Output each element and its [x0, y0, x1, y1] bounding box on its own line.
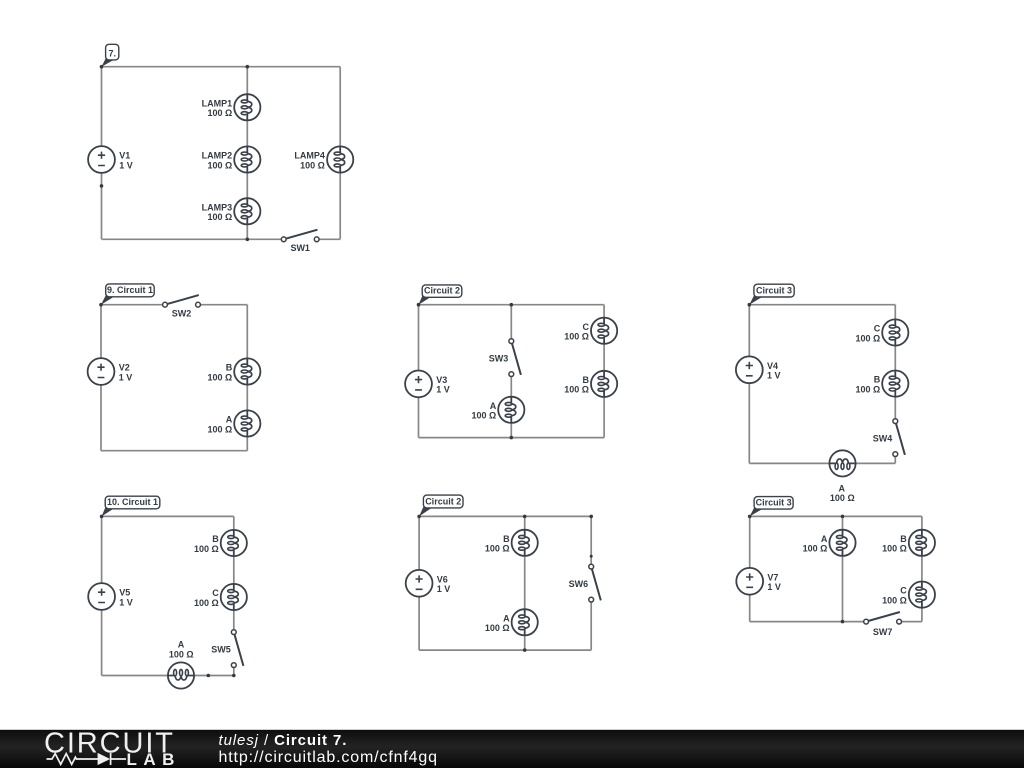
lamp A (10.3): [829, 530, 855, 556]
node (callout tip): [417, 515, 421, 519]
junction bottom of middle branch (9.2): [510, 436, 514, 440]
svg-text:100 Ω: 100 Ω: [855, 333, 880, 343]
junction bottom wire (10.1): [207, 674, 211, 678]
svg-text:V5: V5: [119, 588, 130, 598]
wire top (10.1): [102, 515, 234, 517]
svg-text:Circuit 3: Circuit 3: [756, 498, 792, 508]
callout "Circuit 3" (10.3): [750, 497, 793, 517]
svg-text:B: B: [503, 534, 510, 544]
svg-text:1 V: 1 V: [119, 372, 133, 382]
svg-text:SW2: SW2: [172, 309, 192, 319]
svg-text:A: A: [226, 415, 233, 425]
svg-text:A: A: [178, 640, 185, 650]
voltage source V5: [88, 583, 115, 610]
lamp LAMP3: [234, 198, 260, 224]
svg-text:V4: V4: [767, 361, 778, 371]
svg-text:http://circuitlab.com/cfnf4gq: http://circuitlab.com/cfnf4gq: [219, 749, 438, 766]
svg-text:100 Ω: 100 Ω: [830, 493, 855, 503]
lamp C (10.1): [221, 584, 247, 610]
wire bottom-left (10.3): [750, 621, 866, 623]
wire left (9.3): [748, 305, 750, 464]
lamp B (9.1): [234, 358, 260, 384]
lamp B (9.3): [882, 371, 908, 397]
junction top of middle branch (9.2): [510, 303, 514, 307]
svg-text:B: B: [874, 375, 881, 385]
voltage source V6: [406, 570, 433, 597]
lamp A horizontal (9.3): [829, 450, 855, 476]
wire right lower (9.3): [894, 454, 896, 463]
svg-text:A: A: [839, 484, 846, 494]
svg-text:V1: V1: [119, 151, 130, 161]
wire left (10.1): [101, 516, 103, 675]
switch SW3: [509, 339, 521, 377]
svg-text:C: C: [212, 588, 219, 598]
junction bottom of middle branch (10.2): [523, 648, 527, 652]
svg-text:LAMP4: LAMP4: [294, 151, 325, 161]
lamp C (9.2): [591, 318, 617, 344]
wire top (10.2): [419, 515, 591, 517]
lamp C (9.3): [882, 319, 908, 345]
lamp A (9.2): [498, 397, 524, 423]
lamp B (10.1): [221, 530, 247, 556]
wire right (circuit 7): [339, 67, 341, 240]
wire top (10.3): [750, 515, 922, 517]
wire middle branch (circuit 7): [246, 67, 248, 240]
svg-text:1 V: 1 V: [119, 160, 133, 170]
switch SW5: [231, 630, 243, 668]
svg-text:V6: V6: [437, 574, 448, 584]
junction bottom of lamp branch: [246, 238, 250, 242]
svg-text:100 Ω: 100 Ω: [564, 332, 589, 342]
svg-text:V7: V7: [767, 572, 778, 582]
svg-text:A: A: [490, 401, 497, 411]
callout "9. Circuit 1": [101, 284, 154, 305]
lamp A (10.2): [512, 609, 538, 635]
svg-text:100 Ω: 100 Ω: [855, 384, 880, 394]
svg-text:SW6: SW6: [569, 579, 589, 589]
svg-text:LAMP3: LAMP3: [202, 202, 233, 212]
callout "10. Circuit 1": [102, 496, 160, 516]
wire right lower (10.2): [590, 600, 592, 651]
svg-text:A: A: [821, 534, 828, 544]
wire left (9.1): [100, 305, 102, 451]
voltage source V7: [736, 568, 763, 595]
svg-text:Circuit 3: Circuit 3: [756, 285, 792, 295]
svg-text:9. Circuit 1: 9. Circuit 1: [107, 285, 153, 295]
svg-text:100 Ω: 100 Ω: [485, 544, 510, 554]
wire middle upper (9.2): [510, 305, 512, 341]
svg-text:100 Ω: 100 Ω: [194, 598, 219, 608]
wire middle branch (10.2): [524, 516, 526, 650]
svg-text:10. Circuit 1: 10. Circuit 1: [107, 497, 158, 507]
svg-text:Circuit 2: Circuit 2: [425, 496, 461, 506]
lamp A horizontal (10.1): [168, 662, 194, 688]
wire top (9.3): [749, 304, 895, 306]
svg-text:B: B: [583, 375, 590, 385]
wire left (10.3): [749, 516, 751, 621]
svg-text:100 Ω: 100 Ω: [194, 544, 219, 554]
voltage source V2: [88, 358, 115, 385]
wire top (9.2): [419, 304, 605, 306]
callout "Circuit 2" (10.2): [419, 495, 463, 516]
junction top-right corner (10.2): [589, 515, 593, 519]
switch SW2: [163, 295, 201, 307]
wire bottom-left (circuit 7): [102, 238, 284, 240]
voltage source V3: [405, 371, 432, 398]
callout "7.": [102, 44, 119, 66]
wire bottom-right (10.3): [899, 621, 922, 623]
wire right (9.1): [246, 305, 248, 451]
switch SW4: [893, 419, 905, 457]
svg-text:100 Ω: 100 Ω: [207, 424, 232, 434]
wire middle lower (9.2): [510, 374, 512, 438]
svg-text:C: C: [874, 324, 881, 334]
callout "Circuit 3" (9.3): [749, 284, 794, 305]
wire right upper (10.1): [233, 516, 235, 632]
svg-text:1 V: 1 V: [436, 385, 450, 395]
node (callout tip): [100, 515, 104, 519]
svg-text:C: C: [900, 586, 907, 596]
wire right (9.2): [603, 305, 605, 438]
svg-text:B: B: [226, 363, 233, 373]
svg-text:B: B: [900, 534, 907, 544]
svg-text:SW4: SW4: [873, 434, 893, 444]
svg-text:1 V: 1 V: [119, 597, 133, 607]
wire top (circuit 7): [102, 66, 341, 68]
switch SW7: [864, 612, 902, 624]
svg-text:V3: V3: [436, 375, 447, 385]
switch SW1: [281, 230, 319, 242]
node (callout tip): [748, 303, 752, 307]
wire top-right (9.1): [198, 304, 247, 306]
svg-text:100 Ω: 100 Ω: [564, 385, 589, 395]
lamp C (10.3): [909, 582, 935, 608]
wire bottom (9.1): [101, 450, 247, 452]
junction bottom of middle branch (10.3): [841, 620, 845, 624]
wire bottom-right (circuit 7): [317, 238, 340, 240]
lamp A (9.1): [234, 410, 260, 436]
voltage source V4: [736, 356, 763, 383]
callout "Circuit 2" (9.2): [419, 285, 462, 305]
wire left (circuit 7): [101, 67, 103, 240]
wire right (10.3): [921, 516, 923, 621]
svg-text:SW5: SW5: [211, 645, 231, 655]
svg-text:7.: 7.: [108, 48, 116, 58]
wire bottom (9.2): [419, 437, 605, 439]
junction right wire (10.2): [590, 555, 593, 558]
wire left (9.2): [418, 305, 420, 438]
svg-text:tulesj / Circuit 7.: tulesj / Circuit 7.: [219, 732, 348, 749]
lamp B (10.2): [512, 530, 538, 556]
wire right lower (10.1): [233, 665, 235, 675]
svg-text:SW7: SW7: [873, 627, 893, 637]
wire middle branch (10.3): [842, 516, 844, 621]
junction top of lamp branch: [246, 65, 250, 69]
junction top of middle branch (10.2): [523, 515, 527, 519]
svg-text:100 Ω: 100 Ω: [300, 160, 325, 170]
svg-text:LAMP2: LAMP2: [202, 151, 233, 161]
svg-text:100 Ω: 100 Ω: [207, 372, 232, 382]
svg-text:100 Ω: 100 Ω: [207, 160, 232, 170]
junction bottom-right corner (10.1): [232, 674, 236, 678]
switch SW6: [589, 564, 601, 602]
svg-text:100 Ω: 100 Ω: [169, 649, 194, 659]
lamp B (10.3): [909, 530, 935, 556]
svg-text:V2: V2: [119, 363, 130, 373]
node (callout tip): [417, 303, 421, 307]
lamp LAMP1: [234, 94, 260, 120]
svg-text:SW3: SW3: [489, 354, 509, 364]
svg-text:Circuit 2: Circuit 2: [424, 286, 460, 296]
wire right upper (10.2): [590, 516, 592, 566]
svg-text:A: A: [503, 613, 510, 623]
wire left (10.2): [418, 516, 420, 650]
junction below V1: [100, 184, 104, 188]
svg-text:1 V: 1 V: [767, 371, 781, 381]
node (callout tip): [748, 515, 752, 519]
svg-text:100 Ω: 100 Ω: [485, 623, 510, 633]
svg-text:100 Ω: 100 Ω: [882, 544, 907, 554]
svg-text:C: C: [583, 322, 590, 332]
svg-text:100 Ω: 100 Ω: [471, 411, 496, 421]
wire right upper (9.3): [894, 305, 896, 421]
junction top of middle branch (10.3): [841, 515, 845, 519]
wire bottom (10.1): [102, 675, 234, 677]
svg-text:1 V: 1 V: [437, 584, 451, 594]
wire bottom (9.3): [749, 462, 895, 464]
svg-text:LAB: LAB: [127, 750, 181, 768]
node (callout tip): [99, 303, 103, 307]
node (callout tip): [100, 65, 104, 69]
svg-text:B: B: [212, 534, 219, 544]
svg-text:100 Ω: 100 Ω: [207, 108, 232, 118]
wire top-left (9.1): [101, 304, 165, 306]
lamp LAMP4: [327, 146, 353, 172]
lamp B (9.2): [591, 371, 617, 397]
svg-text:100 Ω: 100 Ω: [207, 212, 232, 222]
voltage source V1: [88, 146, 115, 173]
lamp LAMP2: [234, 146, 260, 172]
CircuitLab logo resistor-diode glyph: [47, 753, 127, 765]
svg-text:SW1: SW1: [290, 243, 310, 253]
svg-text:1 V: 1 V: [767, 582, 781, 592]
svg-text:LAMP1: LAMP1: [202, 98, 233, 108]
svg-text:100 Ω: 100 Ω: [882, 595, 907, 605]
wire bottom (10.2): [419, 649, 591, 651]
svg-text:100 Ω: 100 Ω: [803, 544, 828, 554]
